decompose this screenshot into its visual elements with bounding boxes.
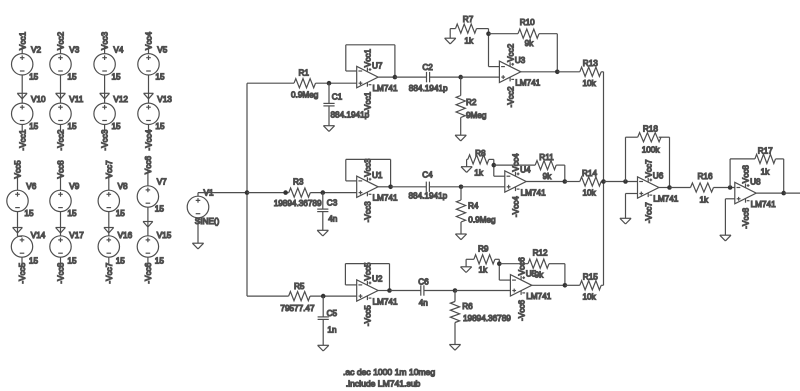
- op-amp U8: [735, 182, 756, 203]
- svg-text:1n: 1n: [327, 325, 337, 334]
- svg-text:Vcc4: Vcc4: [145, 31, 154, 50]
- voltage source V16: [98, 236, 119, 257]
- label U4: [520, 166, 531, 175]
- svg-text:V15: V15: [157, 231, 172, 240]
- label V15: [157, 231, 172, 240]
- wire: [104, 75, 106, 103]
- svg-text:15: 15: [112, 122, 122, 131]
- svg-text:V7: V7: [157, 178, 167, 187]
- wire U2 feedback left: [344, 264, 346, 285]
- svg-text:15: 15: [155, 122, 165, 131]
- svg-text:R2: R2: [466, 98, 477, 107]
- label R5: [294, 282, 305, 291]
- wire: [670, 187, 691, 189]
- resistor R10: [518, 29, 539, 38]
- value 15 of V10: [29, 122, 39, 131]
- resistor R8: [468, 155, 489, 164]
- svg-text:.include LM741.sub: .include LM741.sub: [346, 379, 421, 389]
- wire: [60, 125, 62, 132]
- svg-text:V11: V11: [69, 95, 83, 104]
- wire: [601, 71, 603, 73]
- wire: [346, 70, 357, 72]
- U5 V+ pin label Vcc6: [517, 257, 526, 276]
- svg-text:15: 15: [67, 209, 77, 218]
- ground: [461, 267, 472, 273]
- wire: [659, 136, 670, 138]
- wire: [601, 181, 603, 183]
- op-amp U3: [499, 61, 520, 82]
- junction bus-V1: [245, 190, 250, 195]
- svg-text:9k: 9k: [535, 271, 545, 280]
- wire: [556, 164, 565, 166]
- wire U1 feedback top: [346, 158, 391, 160]
- svg-text:Vcc7: Vcc7: [644, 159, 653, 178]
- svg-text:C2: C2: [422, 63, 433, 72]
- ground: [317, 230, 328, 236]
- junction U8 output: [781, 191, 786, 196]
- svg-text:884.1941p: 884.1941p: [409, 191, 448, 200]
- svg-text:15: 15: [24, 209, 34, 218]
- svg-text:LM741: LM741: [521, 188, 546, 197]
- wire: [450, 28, 455, 30]
- svg-text:15: 15: [155, 257, 165, 266]
- value 4n of C6: [419, 299, 429, 308]
- label U8: [750, 177, 761, 186]
- voltage source V2: [12, 54, 33, 75]
- ground: [13, 228, 23, 234]
- svg-text:0.9Meg: 0.9Meg: [291, 91, 319, 100]
- wire: [521, 71, 558, 73]
- value 10k of R13: [583, 79, 597, 88]
- wire: [328, 106, 330, 126]
- U7 V- pin label -Vcc1: [364, 91, 373, 112]
- capacitor C6: [421, 285, 424, 295]
- ground: [100, 93, 110, 99]
- svg-text:R6: R6: [462, 302, 473, 311]
- svg-text:4n: 4n: [419, 299, 429, 308]
- wire: [147, 170, 149, 186]
- wire: [17, 174, 19, 190]
- wire: [526, 181, 565, 183]
- net flag Vcc7: [105, 160, 114, 179]
- net flag -Vcc1: [18, 129, 27, 150]
- ground: [620, 218, 631, 224]
- ground: [449, 345, 460, 351]
- value 19894.36789 of R6: [463, 314, 511, 323]
- resistor R5: [289, 292, 311, 301]
- label U2 LM741: [373, 297, 398, 306]
- label V2: [31, 45, 41, 54]
- wire: [391, 186, 427, 188]
- wire: [756, 192, 784, 194]
- wire: [247, 295, 289, 297]
- svg-text:R4: R4: [468, 201, 479, 210]
- wire U7 feedback left: [345, 45, 347, 71]
- op-amp U4: [505, 171, 526, 192]
- svg-text:10k: 10k: [583, 79, 597, 88]
- ground: [455, 135, 466, 141]
- junction U3 output: [555, 70, 560, 75]
- label U5: [526, 270, 537, 279]
- svg-text:-Vcc4: -Vcc4: [512, 196, 521, 217]
- U1 V- pin label -Vcc3: [364, 201, 373, 222]
- net flag Vcc8: [57, 160, 66, 179]
- wire: [454, 323, 456, 345]
- svg-text:Vcc3: Vcc3: [364, 158, 373, 177]
- capacitor C3: [317, 209, 328, 212]
- label V17: [69, 231, 84, 240]
- op-amp U5: [510, 275, 531, 296]
- label R9: [478, 245, 489, 254]
- wire: [625, 194, 627, 219]
- wire: [556, 34, 558, 73]
- junction node R8-R11: [492, 163, 497, 168]
- svg-text:V3: V3: [69, 45, 79, 54]
- svg-text:C6: C6: [418, 277, 429, 286]
- label R18: [643, 125, 658, 134]
- wire: [776, 158, 784, 160]
- svg-text:V13: V13: [157, 95, 172, 104]
- svg-text:-Vcc4: -Vcc4: [145, 129, 154, 150]
- svg-text:C1: C1: [332, 92, 343, 101]
- wire: [429, 186, 461, 188]
- voltage source V5: [138, 54, 159, 75]
- label V5: [157, 45, 167, 54]
- wire: [489, 158, 494, 160]
- svg-text:U8: U8: [750, 177, 761, 186]
- wire: [198, 192, 247, 194]
- resistor R12: [528, 259, 549, 268]
- junction U6 output: [667, 185, 672, 190]
- ground: [17, 93, 27, 99]
- wire: [310, 192, 356, 194]
- svg-text:1k: 1k: [479, 266, 489, 275]
- wire: [494, 164, 535, 166]
- capacitor C5: [318, 317, 329, 320]
- svg-text:V17: V17: [69, 231, 84, 240]
- wire: [477, 28, 489, 30]
- label R17: [758, 146, 773, 155]
- svg-text:15: 15: [116, 257, 126, 266]
- value 15 of V13: [155, 122, 165, 131]
- label U5 LM741: [526, 292, 551, 301]
- net flag -Vcc7: [105, 262, 114, 283]
- resistor R1: [294, 79, 316, 88]
- svg-text:15: 15: [29, 122, 39, 131]
- svg-text:-Vcc3: -Vcc3: [364, 201, 373, 222]
- wire: [148, 125, 150, 132]
- svg-text:-Vcc3: -Vcc3: [101, 129, 110, 150]
- svg-text:1k: 1k: [700, 195, 710, 204]
- label V4: [113, 45, 123, 54]
- resistor R17: [755, 154, 776, 163]
- resistor R13: [580, 67, 601, 76]
- label R14: [582, 169, 597, 178]
- label V7: [157, 178, 167, 187]
- svg-text:C4: C4: [422, 171, 433, 180]
- capacitor C2: [427, 72, 430, 82]
- wire: [147, 207, 149, 236]
- svg-text:15: 15: [67, 122, 77, 131]
- label C6: [418, 277, 429, 286]
- junction node C1: [327, 81, 332, 86]
- svg-text:U2: U2: [372, 275, 383, 284]
- value 15 of V12: [112, 122, 122, 131]
- label U1 LM741: [373, 194, 398, 203]
- svg-text:-Vcc7: -Vcc7: [644, 202, 653, 223]
- value 1k of R7: [464, 36, 474, 45]
- op-amp U6: [638, 177, 659, 198]
- svg-text:LM741: LM741: [526, 292, 551, 301]
- value 15 of V2: [29, 72, 39, 81]
- wire: [60, 46, 62, 53]
- voltage source V6: [7, 190, 28, 211]
- voltage source V9: [50, 190, 71, 211]
- svg-text:-Vcc1: -Vcc1: [18, 129, 27, 150]
- U5 V- pin label -Vcc6: [517, 300, 526, 321]
- svg-text:V14: V14: [31, 231, 46, 240]
- wire: [316, 82, 357, 84]
- wire: [60, 212, 62, 236]
- junction node C3: [321, 190, 326, 195]
- wire: [395, 76, 427, 78]
- label U3 LM741: [515, 79, 540, 88]
- label R10: [520, 18, 535, 27]
- label R15: [583, 272, 598, 281]
- wire: [21, 235, 23, 237]
- svg-text:LM741: LM741: [373, 297, 398, 306]
- svg-text:V16: V16: [118, 231, 133, 240]
- voltage source V7: [137, 186, 158, 207]
- value 15 of V11: [67, 122, 77, 131]
- wire: [378, 186, 391, 188]
- value 10k of R15: [583, 292, 597, 301]
- wire: [466, 258, 474, 260]
- wire: [783, 159, 785, 193]
- svg-text:1k: 1k: [464, 36, 474, 45]
- svg-text:V9: V9: [69, 182, 79, 191]
- wire: [430, 76, 461, 78]
- junction node C5: [321, 294, 326, 299]
- wire: [730, 158, 755, 160]
- svg-text:U1: U1: [372, 171, 383, 180]
- voltage source V3: [50, 54, 71, 75]
- svg-text:Vcc6: Vcc6: [517, 257, 526, 276]
- label R2: [466, 98, 477, 107]
- label R6: [462, 302, 473, 311]
- label R16: [698, 172, 713, 181]
- label V8: [118, 182, 128, 191]
- wire: [322, 212, 324, 231]
- svg-text:LM741: LM741: [373, 194, 398, 203]
- value 15 of V14: [29, 257, 39, 266]
- ground: [323, 126, 334, 132]
- U4 V+ pin label Vcc4: [512, 153, 521, 172]
- junction U4 output: [563, 179, 568, 184]
- U6 V- pin label -Vcc7: [644, 202, 653, 223]
- value 15 of V9: [67, 209, 77, 218]
- wire: [494, 175, 505, 177]
- svg-text:LM741: LM741: [373, 84, 398, 93]
- value 9k of R11: [543, 172, 553, 181]
- value 0.9Meg of R4: [468, 216, 496, 225]
- wire: [724, 199, 726, 235]
- junction U7 output: [393, 75, 398, 80]
- U2 V+ pin label Vcc5: [364, 262, 373, 281]
- wire U2 feedback right: [389, 264, 391, 291]
- wire: [378, 76, 395, 78]
- svg-text:10k: 10k: [583, 292, 597, 301]
- wire: [460, 118, 462, 136]
- wire: [493, 159, 495, 176]
- svg-text:LM741: LM741: [515, 79, 540, 88]
- wire: [465, 259, 467, 267]
- junction: [283, 190, 288, 195]
- label U6: [653, 172, 664, 181]
- svg-text:10k: 10k: [583, 188, 597, 197]
- wire: [604, 181, 638, 183]
- op-amp U1: [357, 176, 378, 197]
- net flag -Vcc8: [57, 262, 66, 283]
- svg-text:-Vcc8: -Vcc8: [57, 262, 66, 283]
- wire: [21, 75, 23, 103]
- svg-text:15: 15: [29, 257, 39, 266]
- label R8: [475, 149, 486, 158]
- svg-text:4n: 4n: [328, 214, 338, 223]
- op-amp U2: [357, 280, 378, 301]
- wire: [322, 296, 324, 317]
- voltage source V11: [50, 103, 71, 124]
- wire U1 feedback right: [390, 159, 392, 186]
- U7 V+ pin label Vcc1: [364, 49, 373, 68]
- svg-text:79577.47: 79577.47: [280, 304, 315, 313]
- ground: [56, 93, 66, 99]
- value 9k of R10: [525, 39, 535, 48]
- svg-text:R3: R3: [293, 178, 304, 187]
- svg-text:R13: R13: [583, 59, 598, 68]
- wire: [729, 159, 731, 188]
- value 19894.36789 of R3: [274, 199, 322, 208]
- net flag Vcc6: [144, 155, 153, 174]
- wire: [17, 212, 19, 237]
- label U7 LM741: [373, 84, 398, 93]
- label R7: [463, 15, 474, 24]
- voltage source V17: [50, 236, 71, 257]
- value 15 of V4: [112, 72, 122, 81]
- net flag -Vcc4: [145, 129, 154, 150]
- svg-text:R1: R1: [299, 68, 310, 77]
- ground: [445, 38, 456, 44]
- value 15 of V15: [155, 257, 165, 266]
- label U3: [515, 56, 526, 65]
- wire: [725, 198, 734, 200]
- resistor R16: [691, 183, 714, 192]
- wire: [557, 71, 580, 73]
- label C4: [422, 171, 433, 180]
- value 15 of V16: [116, 257, 126, 266]
- label R1: [299, 68, 310, 77]
- ground: [192, 243, 203, 249]
- svg-text:Vcc1: Vcc1: [364, 49, 373, 68]
- svg-text:0.9Meg: 0.9Meg: [468, 216, 496, 225]
- net flag -Vcc3: [101, 129, 110, 150]
- svg-text:R8: R8: [475, 149, 486, 158]
- U3 V+ pin label Vcc2: [506, 43, 515, 62]
- value SINE() of V1: [195, 217, 220, 226]
- net flag Vcc1: [18, 31, 27, 50]
- resistor R9: [474, 255, 495, 264]
- svg-text:R5: R5: [294, 282, 305, 291]
- svg-text:19894.36789: 19894.36789: [274, 199, 322, 208]
- U8 V- pin label -Vcc8: [742, 207, 751, 228]
- wire: [345, 284, 356, 286]
- wire: [466, 159, 468, 166]
- wire main input bus: [246, 83, 248, 296]
- wire: [625, 137, 627, 181]
- label C2: [422, 63, 433, 72]
- wire: [60, 174, 62, 190]
- value 884.1941p of C2: [409, 84, 448, 93]
- label V12: [113, 95, 128, 104]
- wire: [21, 125, 23, 132]
- wire: [626, 136, 638, 138]
- junction summing bus row2: [601, 179, 606, 184]
- label V16: [118, 231, 133, 240]
- voltage source V13: [138, 103, 159, 124]
- svg-text:1k: 1k: [474, 168, 484, 177]
- directive .ac: [343, 367, 435, 377]
- svg-text:V5: V5: [157, 45, 167, 54]
- svg-text:R7: R7: [463, 15, 474, 24]
- U6 V+ pin label Vcc7: [644, 159, 653, 178]
- resistor R14: [580, 177, 601, 186]
- net flag Vcc5: [14, 160, 23, 179]
- junction U5 output: [563, 283, 568, 288]
- value 1k of R16: [700, 195, 710, 204]
- wire: [532, 284, 565, 286]
- svg-text:15: 15: [67, 72, 77, 81]
- wire: [489, 33, 519, 35]
- wire: [461, 186, 505, 188]
- svg-text:U3: U3: [515, 56, 526, 65]
- svg-text:V2: V2: [31, 45, 41, 54]
- wire: [310, 295, 357, 297]
- wire: [498, 259, 500, 280]
- svg-text:R10: R10: [520, 18, 535, 27]
- svg-text:C3: C3: [327, 199, 338, 208]
- wire: [565, 284, 580, 286]
- net flag Vcc3: [101, 31, 110, 50]
- ground: [56, 228, 66, 234]
- U4 V- pin label -Vcc4: [512, 196, 521, 217]
- value 9k of R12: [535, 271, 545, 280]
- U8 V+ pin label Vcc8: [742, 165, 751, 184]
- junction U2 output: [387, 288, 392, 293]
- svg-text:R14: R14: [582, 169, 597, 178]
- svg-text:1k: 1k: [761, 167, 771, 176]
- label R13: [583, 59, 598, 68]
- wire: [564, 165, 566, 181]
- label R3: [293, 178, 304, 187]
- svg-text:Vcc6: Vcc6: [144, 155, 153, 174]
- resistor R6: [450, 302, 459, 323]
- wire: [495, 258, 499, 260]
- svg-text:884.1941p: 884.1941p: [409, 84, 448, 93]
- resistor R3: [289, 188, 311, 197]
- svg-text:-Vcc1: -Vcc1: [364, 91, 373, 112]
- wire: [21, 46, 23, 53]
- wire: [60, 75, 62, 103]
